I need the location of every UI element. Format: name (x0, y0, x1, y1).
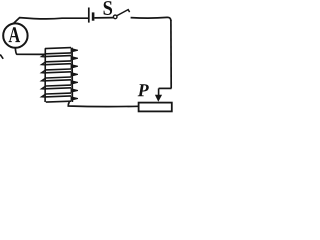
wire right vertical (170, 20, 172, 88)
coil left fold 1 (42, 54, 46, 57)
wire battery to switch (94, 17, 113, 19)
wire ammeter bottom to coil (15, 48, 45, 55)
label P (138, 84, 149, 96)
coil turn 7 (45, 96, 78, 102)
coil left rail (44, 48, 46, 102)
coil turn 1 (45, 48, 78, 54)
wire jog to slider (159, 87, 172, 89)
switch S blade (117, 10, 130, 16)
coil left fold 3 (42, 70, 46, 73)
coil turn 3 (45, 64, 78, 70)
ammeter A (3, 23, 27, 47)
battery short plate (92, 12, 95, 20)
stray mark left edge (0, 55, 3, 59)
coil turn 4 (45, 72, 78, 78)
label S (104, 1, 113, 15)
rheostat P body (139, 103, 172, 112)
coil right rail (71, 48, 73, 102)
coil left fold 5 (42, 86, 46, 89)
coil left fold 6 (42, 94, 46, 97)
wire ammeter top to battery (13, 18, 88, 24)
slider arrow of rheostat (155, 88, 162, 101)
switch S pivot (113, 15, 117, 19)
wire rheostat to coil bottom (68, 102, 138, 106)
wire switch to top-right corner (131, 17, 171, 21)
coil turn 6 (45, 88, 78, 94)
coil turn 2 (45, 56, 78, 62)
coil left fold 2 (42, 62, 46, 65)
coil turn 5 (45, 80, 78, 86)
coil left fold 4 (42, 78, 46, 81)
battery long plate (88, 8, 90, 23)
